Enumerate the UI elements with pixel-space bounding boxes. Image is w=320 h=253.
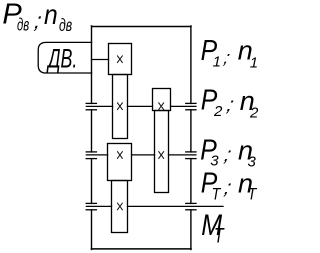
housing right wall xyxy=(190,26,192,250)
shaft T (output, extends right) xyxy=(86,205,223,207)
svg-text:;: ; xyxy=(222,144,233,166)
gear mark x on z1 xyxy=(117,56,122,63)
svg-text:;: ; xyxy=(225,94,236,116)
svg-text:;: ; xyxy=(33,8,43,33)
label P2 ; n2 xyxy=(201,84,259,122)
label P1 ; n1 xyxy=(201,34,259,71)
svg-text:ДВ.: ДВ. xyxy=(46,43,78,74)
gear mark x on z3 xyxy=(159,103,164,110)
svg-text:T: T xyxy=(212,185,222,203)
gear z1 on shaft 1 xyxy=(109,44,132,75)
label P3 ; n3 xyxy=(200,134,256,171)
bearing left wall shaft T xyxy=(86,203,96,209)
svg-text:T: T xyxy=(214,223,225,247)
gear z4 on shaft 3 xyxy=(155,111,169,193)
bearing right wall shaft T xyxy=(186,203,196,209)
bearing left wall shaft 2 xyxy=(86,103,96,109)
gear z3 on shaft 2 xyxy=(153,89,171,111)
svg-text:2: 2 xyxy=(249,105,259,122)
motor label Dv. xyxy=(46,43,78,74)
shaft 3 xyxy=(86,154,195,156)
svg-text:n: n xyxy=(44,0,58,30)
gear z2 on shaft 2 xyxy=(113,75,128,139)
svg-text:2: 2 xyxy=(213,103,223,120)
svg-text:дв: дв xyxy=(59,16,72,36)
bearing right wall shaft 3 xyxy=(186,152,196,159)
gear z6 on shaft T xyxy=(112,181,128,233)
label PT ; nT xyxy=(201,167,258,204)
gear mark x on z5 xyxy=(117,152,122,159)
housing top wall xyxy=(92,26,192,28)
gear mark x on z2 xyxy=(117,103,122,110)
housing bottom wall xyxy=(92,248,192,250)
gear z5 on shaft 3 xyxy=(108,144,132,181)
motor box (rounded, attached to left wall) xyxy=(38,42,91,73)
svg-text:1: 1 xyxy=(213,53,221,70)
svg-text:T: T xyxy=(248,185,258,203)
svg-text:дв: дв xyxy=(17,16,29,35)
svg-text:1: 1 xyxy=(250,55,258,72)
shaft 2 xyxy=(86,105,195,107)
label MT (output torque) xyxy=(201,208,225,247)
svg-text:;: ; xyxy=(222,47,232,68)
housing left wall xyxy=(91,26,93,250)
shaft 1 (motor shaft) xyxy=(92,59,109,61)
svg-text:;: ; xyxy=(222,177,233,199)
gear mark x on z6 xyxy=(117,203,122,210)
bearing right wall shaft 2 xyxy=(186,103,196,109)
bearing left wall shaft 3 xyxy=(86,152,96,159)
gear mark x on z4 xyxy=(159,152,164,159)
label P_dv ; n_dv xyxy=(2,0,72,36)
